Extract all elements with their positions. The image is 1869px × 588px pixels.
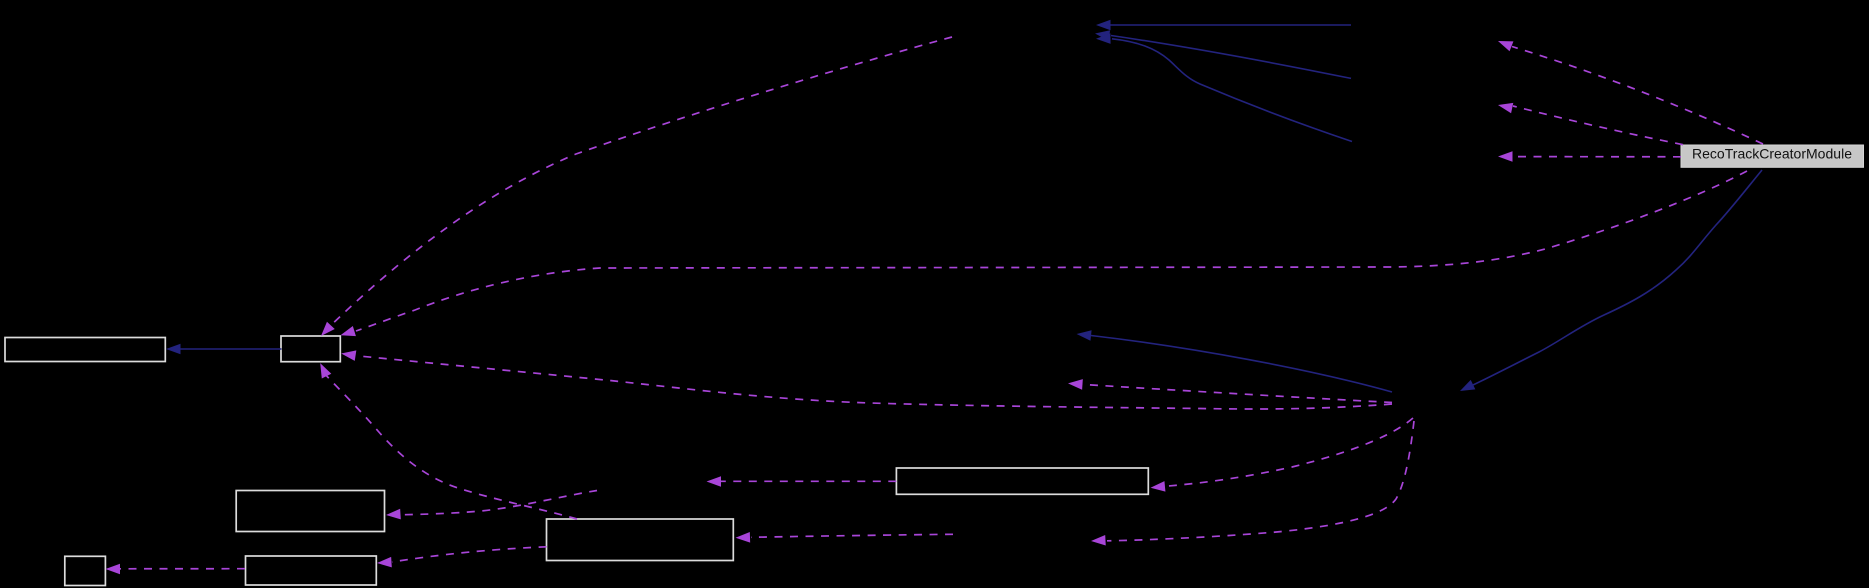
purple dashed edge M2 to S2: [392, 547, 547, 562]
arrowhead into S1: [106, 564, 121, 575]
blue edge B3 curve: [1112, 39, 1352, 142]
purple dashed edge fan1 RecoTrack to top-left: [1512, 47, 1763, 145]
purple dashed edge fan3 horizontal: [1513, 156, 1681, 158]
purple dashed edge fan2: [1513, 106, 1683, 145]
arrowhead fan2: [1497, 100, 1513, 113]
blue edge B2: [1111, 36, 1351, 79]
arrowhead into M1: [386, 509, 401, 520]
arrowhead hub-left: [1068, 378, 1083, 390]
arrowhead fan3: [1498, 151, 1513, 162]
purple dashed edge hub to Y node: [1107, 421, 1414, 541]
purple dashed edge S2 to S1: [118, 568, 245, 570]
arrowhead B2: [1094, 28, 1110, 41]
arrowhead into L2 top: [317, 322, 335, 340]
node box M2: [547, 519, 734, 561]
arrowhead into L2 bottom: [315, 361, 331, 379]
arrowhead into S2: [377, 557, 392, 568]
purple dashed long edge RecoTrack to L2 corner: [356, 171, 1747, 331]
svg-text:RecoTrackCreatorModule: RecoTrackCreatorModule: [1692, 146, 1852, 162]
purple dashed edge W1 to X: [721, 480, 896, 482]
arrowhead B6: [1458, 380, 1476, 396]
arrowhead B4: [166, 344, 181, 355]
node box L2: [281, 336, 340, 362]
arrowhead into X: [707, 476, 722, 487]
node box S1: [65, 556, 106, 585]
purple dashed edge Y to M2: [751, 534, 953, 537]
blue edge B5 hub to left node: [1091, 336, 1392, 393]
node box M1: [236, 491, 384, 532]
purple dashed edge X to M1: [401, 491, 598, 515]
node box W1: [896, 468, 1148, 494]
arrowhead B1: [1096, 20, 1111, 31]
arrowhead B5: [1076, 329, 1092, 341]
arrowhead into L2 right: [340, 348, 356, 361]
node box L1: [5, 338, 165, 362]
blue edge B6 RecoTrack to hub: [1473, 170, 1762, 385]
purple dashed edge hub to L2 right: [357, 356, 1392, 409]
node RecoTrackCreatorModule: [1681, 145, 1864, 167]
arrowhead into W1: [1150, 481, 1165, 493]
arrowhead fan1: [1496, 36, 1513, 51]
purple dashed edge hub to W1: [1166, 418, 1413, 486]
arrowhead into L2 corner: [339, 326, 356, 340]
purple dashed edge 45deg top node to L2: [331, 37, 953, 326]
blue edge B1 top horizontal: [1109, 24, 1351, 26]
node box S2: [246, 556, 377, 585]
blue edge B4 L2 to L1: [179, 348, 282, 350]
arrowhead into M2: [735, 532, 750, 543]
arrowhead B3: [1096, 33, 1111, 44]
purple dashed edge M2 to L2 bottom: [326, 376, 577, 519]
purple dashed edge hub to mid-left node: [1084, 385, 1392, 403]
arrowhead into Y: [1091, 535, 1106, 546]
